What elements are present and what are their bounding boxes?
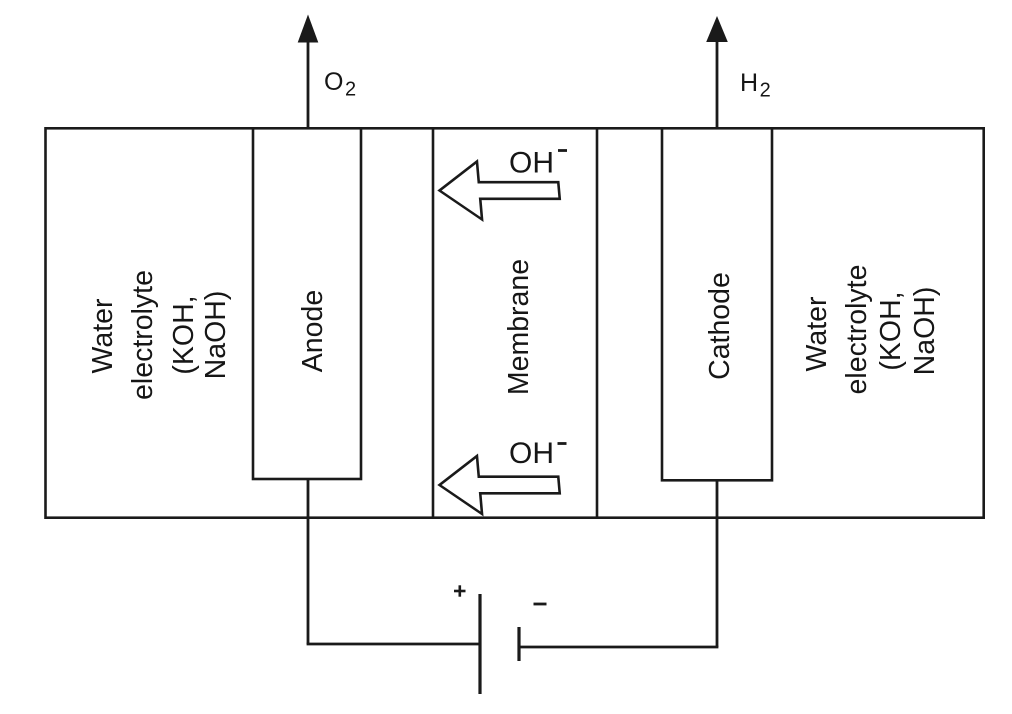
battery positive plate [478,594,481,694]
battery negative plate [517,627,520,661]
anode rectangle [253,128,361,479]
svg-text:(KOH,: (KOH, [168,295,200,374]
svg-text:NaOH): NaOH) [909,287,941,376]
O2 gas arrow [298,15,319,129]
membrane left wall [432,128,435,517]
svg-text:OH: OH [509,147,554,180]
OH- flow arrow bottom [437,456,562,514]
svg-text:electrolyte: electrolyte [841,265,873,395]
wire cathode down [716,480,719,647]
OH- ion label bottom [509,437,567,470]
svg-text:(KOH,: (KOH, [875,291,907,370]
OH- ion label top [509,147,567,180]
cathode rectangle [662,128,772,480]
wire anode to battery (down) [307,479,310,644]
battery plus sign [454,585,466,596]
OH- flow arrow top [437,162,562,220]
wire battery to cathode (right) [519,646,718,649]
battery minus sign [534,603,547,606]
svg-text:Cathode: Cathode [704,272,736,380]
svg-text:OH: OH [509,437,554,470]
svg-text:Water: Water [801,296,833,371]
membrane right wall [596,128,599,517]
cell outer box [46,128,984,517]
H2 gas arrow [706,16,728,128]
svg-text:Water: Water [87,298,119,373]
svg-text:electrolyte: electrolyte [127,270,159,400]
svg-text:Anode: Anode [297,290,329,372]
svg-text:Membrane: Membrane [503,259,535,395]
svg-text:NaOH): NaOH) [200,291,232,380]
wire anode to battery (right) [307,643,480,646]
